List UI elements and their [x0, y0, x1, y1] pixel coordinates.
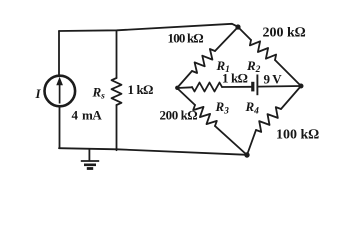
resistor R1 100 kOhm zigzag [192, 49, 215, 73]
svg-text:1 kΩ: 1 kΩ [128, 82, 154, 97]
svg-text:R3: R3 [215, 99, 230, 117]
wire middle branch right of battery [258, 85, 301, 88]
node top junction [235, 24, 240, 29]
wire R1 lower segment [177, 71, 192, 88]
wire R3 lower segment [215, 126, 247, 155]
wire left vertical lower [59, 107, 61, 148]
svg-text:4 mA: 4 mA [72, 108, 103, 123]
wire R1 upper segment [215, 27, 238, 51]
resistor R4 100 kOhm zigzag [256, 107, 281, 132]
wire ground stem [88, 149, 90, 160]
svg-text:9 V: 9 V [264, 72, 283, 87]
resistor R3 200 kOhm zigzag [193, 105, 217, 126]
battery 9V plates [253, 75, 258, 96]
wire middle branch between resistor and battery [222, 86, 251, 88]
current source arrow [57, 78, 63, 104]
wire R2 lower segment [275, 60, 301, 86]
resistor Rm 1 kOhm middle zigzag [192, 83, 222, 92]
wire top horizontal [59, 24, 238, 31]
wire R4 upper segment [281, 86, 301, 109]
svg-text:R4: R4 [245, 99, 260, 117]
ground symbol bars [81, 161, 99, 169]
wire Rs branch upper [116, 30, 118, 78]
svg-text:I: I [35, 86, 42, 101]
node left junction [175, 86, 179, 90]
svg-text:Rs: Rs [92, 85, 106, 102]
wire R2 upper segment [238, 27, 251, 40]
wire Rs branch lower [116, 105, 118, 150]
resistor Rs 1 kOhm zigzag [112, 78, 122, 105]
node bottom junction [244, 152, 249, 157]
wire bottom horizontal [59, 148, 247, 155]
wire middle branch left [177, 86, 192, 89]
svg-text:1 kΩ: 1 kΩ [222, 71, 248, 86]
current source I circle [45, 76, 76, 107]
svg-text:100 kΩ: 100 kΩ [168, 31, 204, 46]
wire R3 upper segment [177, 88, 195, 105]
node right junction [299, 84, 304, 89]
svg-text:R2: R2 [246, 58, 261, 75]
svg-text:200 kΩ: 200 kΩ [263, 26, 306, 41]
svg-text:100 kΩ: 100 kΩ [276, 128, 319, 143]
wire R4 lower segment [247, 130, 256, 155]
svg-text:200 kΩ: 200 kΩ [160, 108, 198, 123]
resistor R2 200 kOhm zigzag [250, 40, 276, 60]
wire top-left vertical upper [58, 31, 60, 76]
